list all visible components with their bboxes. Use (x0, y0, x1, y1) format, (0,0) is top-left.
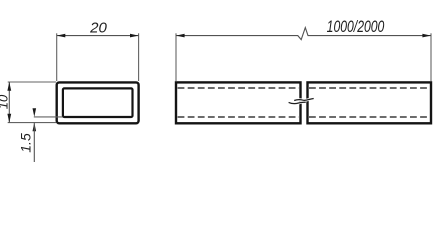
svg-text:20: 20 (89, 20, 107, 37)
svg-text:1.5: 1.5 (18, 133, 34, 153)
tube side view right half outline (308, 82, 432, 123)
hidden line inner wall top left (178, 87, 299, 89)
break squiggle on tube lower stroke (289, 102, 306, 103)
extension line bottom of height dim (8, 122, 56, 124)
hidden line inner wall bottom left (178, 116, 299, 118)
svg-text:10: 10 (0, 94, 10, 109)
extension line left of width dim (56, 33, 58, 81)
extension line of wall thickness at inner bottom (34, 116, 63, 118)
arrowhead right of dim 1000/2000 (422, 34, 431, 38)
break squiggle white halo upper (294, 99, 314, 101)
arrowhead down of dim 10 (7, 114, 11, 123)
dimension line 20 (57, 35, 139, 37)
break squiggle on tube upper stroke (294, 99, 314, 101)
extension line top of height dim (8, 81, 56, 83)
dimension line 10 (8, 82, 10, 123)
arrowhead down of dim 1.5 (33, 108, 37, 117)
extension line right of length dim (430, 33, 432, 81)
outer profile of rectangular tube (cross-section) (57, 82, 139, 123)
svg-text:1000/2000: 1000/2000 (327, 18, 385, 36)
arrowhead left of dim 1000/2000 (176, 34, 185, 38)
tube side view left half outline (176, 82, 301, 123)
arrowhead up of dim 10 (7, 82, 11, 91)
extension line left of length dim (175, 33, 177, 81)
arrowhead left of dim 20 (57, 34, 66, 38)
hidden line inner wall bottom right (309, 116, 430, 118)
inner bore of rectangular tube (cross-section) (63, 88, 133, 117)
extension line right of width dim (138, 33, 140, 81)
arrowhead right of dim 20 (130, 34, 139, 38)
arrowhead up of dim 1.5 (33, 123, 37, 132)
leader line of dim 1.5 (33, 123, 35, 162)
hidden line inner wall top right (309, 87, 430, 89)
break squiggle white halo lower (289, 102, 306, 103)
dimension line 1000/2000 with break (176, 28, 431, 40)
